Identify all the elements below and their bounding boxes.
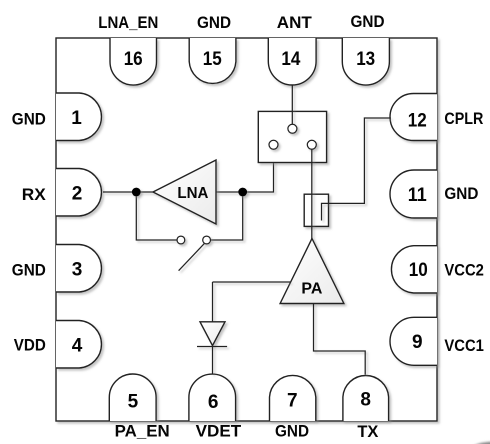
svg-text:14: 14 [281, 49, 300, 70]
svg-text:11: 11 [408, 185, 427, 206]
wire: PA enable/detector node to PA left edge [213, 281, 291, 283]
pin 7 (GND) [270, 375, 316, 421]
svg-text:6: 6 [208, 392, 219, 413]
svg-text:13: 13 [356, 49, 375, 70]
pin 12 (CPLR) [390, 94, 437, 141]
wire: RX pin 2 to LNA output node A [103, 191, 153, 193]
wire: PA output down and right to TX pin 8 [314, 304, 366, 375]
pin 11 (GND) [390, 170, 437, 218]
pin 14 (ANT) [268, 38, 316, 85]
directional coupler DC1 body [304, 194, 328, 226]
svg-text:PA_EN: PA_EN [115, 423, 170, 441]
PA amplifier U2 (triangle pointing up) [280, 239, 344, 304]
antenna switch SW1 RX throw contact [269, 140, 278, 149]
svg-text:15: 15 [203, 49, 222, 70]
svg-text:TX: TX [357, 423, 378, 441]
svg-text:GND: GND [12, 111, 46, 129]
pin 5 (PA_EN) [109, 374, 156, 421]
svg-text:ANT: ANT [277, 14, 312, 32]
svg-text:RX: RX [22, 186, 46, 204]
wire: LNA input (base) to node B and up to antenna switch RX throw [216, 149, 274, 192]
pin 3 (GND) [56, 245, 101, 293]
svg-text:VCC2: VCC2 [444, 262, 484, 280]
svg-text:GND: GND [275, 423, 309, 441]
svg-text:5: 5 [128, 391, 139, 412]
pin 9 (VCC1) [390, 317, 437, 365]
svg-text:GND: GND [12, 261, 46, 279]
svg-text:3: 3 [72, 259, 83, 280]
svg-text:12: 12 [408, 111, 427, 132]
pin 8 (TX) [343, 376, 389, 421]
svg-text:VDD: VDD [14, 337, 46, 355]
svg-text:GND: GND [444, 185, 478, 203]
svg-text:GND: GND [351, 13, 385, 31]
wire: switch TX throw down through coupler main line to PA input tip [311, 149, 313, 239]
svg-text:LNA: LNA [177, 185, 208, 202]
bypass switch SW2 left contact [177, 236, 185, 244]
pin 15 (GND) [189, 38, 236, 83]
antenna switch SW1 TX throw contact [307, 140, 316, 149]
detector diode D1 cathode bar [197, 346, 227, 348]
wire: ANT pin 14 down to switch common pole [291, 85, 293, 124]
junction node B (dot on LNA input line) [238, 188, 247, 197]
IC package outline (QFN-16 body) [56, 38, 437, 421]
coupler DC1 coupled line to CPLR pin 12 [322, 118, 391, 221]
bypass switch SW2 lever (open) [179, 244, 205, 271]
wire: diode cathode down to VDET pin 6 [212, 347, 214, 375]
svg-text:9: 9 [412, 332, 423, 353]
wire: bypass switch right contact up to node B [210, 192, 242, 240]
pin 6 (VDET) [189, 374, 236, 421]
svg-text:10: 10 [409, 260, 428, 281]
antenna switch SW1 common pole contact [288, 124, 297, 133]
svg-text:16: 16 [124, 49, 143, 70]
pin 10 (VCC2) [391, 246, 437, 293]
svg-text:LNA_EN: LNA_EN [98, 14, 158, 32]
junction node A (dot on RX line) [132, 188, 141, 197]
wire: detector node down to diode anode [212, 282, 214, 322]
LNA amplifier U1 (triangle pointing left) [153, 160, 216, 224]
svg-text:VCC1: VCC1 [444, 337, 484, 355]
svg-text:8: 8 [360, 390, 371, 411]
svg-text:4: 4 [72, 335, 83, 356]
wire: node A down to bypass switch left contact [136, 192, 177, 240]
svg-text:2: 2 [72, 183, 83, 204]
pin 2 (RX) [56, 169, 101, 217]
svg-text:GND: GND [197, 14, 231, 32]
detector diode D1 (anode triangle) [200, 322, 225, 346]
pin 1 (GND) [56, 93, 101, 141]
svg-text:CPLR: CPLR [444, 110, 483, 128]
pin 16 (LNA_EN) [110, 38, 157, 85]
svg-text:7: 7 [287, 391, 298, 412]
decorative corner blob (bottom-right watermark edge) [472, 442, 490, 444]
svg-text:VDET: VDET [196, 423, 242, 441]
antenna switch SW1 body (SPDT box) [258, 111, 326, 162]
bypass switch SW2 right contact [203, 236, 211, 244]
svg-text:PA: PA [301, 281, 322, 298]
pin 4 (VDD) [56, 321, 101, 369]
pin 13 (GND) [342, 38, 389, 85]
svg-text:1: 1 [71, 108, 82, 129]
